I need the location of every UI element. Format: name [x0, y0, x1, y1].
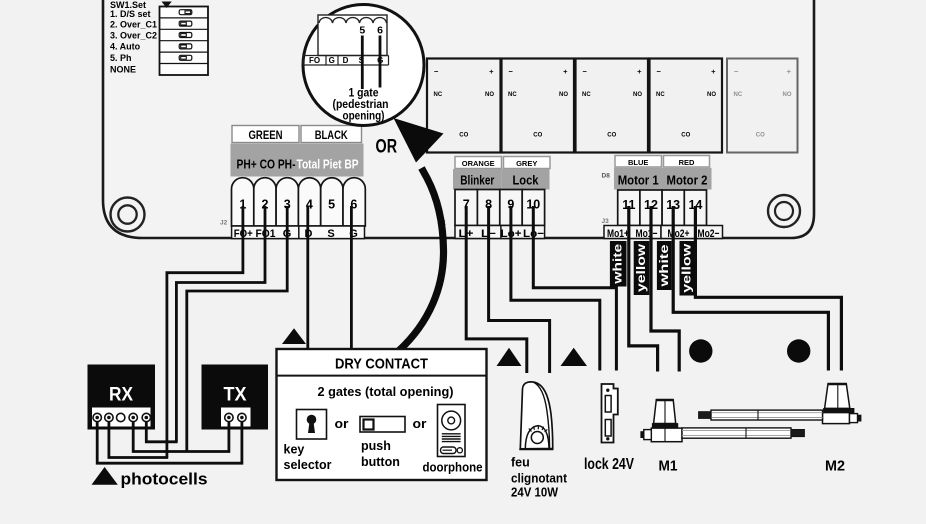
wire label white (Mo1+) [610, 241, 627, 287]
svg-text:+: + [637, 67, 642, 76]
grey label bar PH+ CO PH- Total Piet BP [231, 144, 364, 177]
wire terminal8 L- to blinker [489, 206, 550, 373]
wire terminal14 Mo2- to M2 [695, 206, 841, 371]
svg-text:24V 10W: 24V 10W [511, 486, 558, 500]
relay K2 [502, 59, 575, 153]
svg-text:NC: NC [582, 92, 591, 98]
feu clignotant label [511, 456, 568, 500]
svg-text:opening): opening) [343, 111, 385, 123]
svg-text:DRY CONTACT: DRY CONTACT [335, 356, 428, 373]
wire terminal4 D to dry contact [306, 206, 309, 348]
svg-text:−: − [657, 67, 662, 76]
magnifier circle 1 gate pedestrian [303, 5, 424, 126]
terminal block J2 cells 1-6 [232, 178, 366, 226]
wire terminal6 G to dry contact [350, 206, 353, 348]
svg-text:6: 6 [377, 25, 383, 37]
junction dot node A [689, 339, 712, 362]
key selector label [284, 443, 332, 473]
wire label yellow (Mo1-) [634, 241, 650, 295]
wire terminal11 Mo1+ to M1 [629, 206, 658, 372]
control board outline [103, 0, 814, 238]
svg-text:1 gate: 1 gate [349, 88, 379, 100]
svg-text:3. Over_C2: 3. Over_C2 [110, 31, 157, 41]
svg-text:PH+ CO PH-: PH+ CO PH- [237, 158, 296, 172]
svg-text:Lock: Lock [513, 172, 540, 187]
DIP switch row4 slider [179, 44, 192, 49]
svg-text:Mo1−: Mo1− [636, 228, 658, 240]
Motor 2 grey box [663, 168, 712, 190]
J3 label strip Mo1+ Mo1- Mo2+ Mo2- [604, 226, 661, 239]
key selector icon [297, 410, 327, 440]
svg-text:GREEN: GREEN [249, 128, 283, 142]
svg-text:J2: J2 [220, 220, 228, 227]
wire terminal3 G to bus [187, 206, 287, 452]
svg-text:white: white [613, 244, 625, 285]
RX bus wire t1 to TX t2 [97, 421, 242, 463]
wire label yellow (Mo2-) [680, 241, 695, 296]
svg-text:NO: NO [559, 92, 568, 98]
mini label band FO G D S G [303, 55, 389, 57]
svg-text:G: G [329, 56, 335, 65]
svg-text:5. Ph: 5. Ph [110, 53, 132, 63]
wire terminal2 FO1 to RX bus [176, 206, 265, 442]
J2 label strip FO+ FO1 G D S G [232, 226, 365, 239]
svg-text:−: − [434, 67, 439, 76]
svg-text:5: 5 [359, 25, 365, 37]
svg-text:NC: NC [656, 92, 665, 98]
svg-text:ORANGE: ORANGE [462, 159, 495, 168]
svg-text:CO: CO [756, 133, 765, 139]
SW1 legend text [110, 0, 157, 75]
wire terminal9 Lo+ to lock [511, 206, 600, 371]
svg-text:selector: selector [284, 458, 332, 472]
svg-text:CO: CO [533, 133, 542, 139]
marker triangle above dry contact [282, 328, 306, 344]
svg-text:2. Over_C1: 2. Over_C1 [110, 20, 157, 30]
svg-text:NO: NO [707, 92, 716, 98]
svg-text:yellow: yellow [636, 244, 648, 292]
Motor 1 grey box [614, 168, 663, 190]
relay K5 (faded) [727, 59, 798, 153]
svg-text:NC: NC [734, 92, 743, 98]
GREEN header box [232, 126, 299, 143]
svg-text:button: button [361, 455, 400, 469]
terminal cells 7-10 [455, 190, 545, 226]
photocells triangle [92, 467, 118, 485]
svg-text:NO: NO [783, 92, 792, 98]
svg-text:CO: CO [607, 133, 616, 139]
lock 24V icon [602, 384, 618, 443]
svg-text:photocells: photocells [121, 470, 208, 489]
wire terminal7 L+ to blinker [466, 206, 527, 373]
svg-text:yellow: yellow [682, 244, 694, 293]
svg-text:GREY: GREY [516, 159, 537, 168]
svg-text:NO: NO [485, 92, 494, 98]
svg-text:1. D/S set: 1. D/S set [110, 9, 151, 19]
svg-text:+: + [711, 67, 716, 76]
M2 actuator motor [699, 384, 862, 424]
svg-text:2 gates (total opening): 2 gates (total opening) [318, 385, 454, 399]
doorphone icon [438, 405, 466, 457]
svg-text:Mo1+: Mo1+ [607, 228, 629, 240]
Lock grey box [501, 169, 549, 190]
RX terminal strip [92, 408, 151, 427]
svg-text:Mo2−: Mo2− [698, 228, 720, 240]
svg-text:(pedestrian: (pedestrian [333, 99, 389, 111]
svg-text:OR: OR [376, 136, 398, 158]
terminal numbers 11-14 [622, 198, 702, 212]
wire terminal13 Mo2+ to M2 [673, 206, 828, 371]
RED label box [664, 156, 710, 168]
svg-text:M2: M2 [825, 459, 845, 475]
svg-text:NC: NC [434, 92, 443, 98]
TX terminal strip [221, 408, 251, 427]
svg-text:key: key [284, 443, 305, 457]
mini wire 6 [379, 36, 382, 88]
screw hole left [111, 198, 145, 232]
svg-text:BLUE: BLUE [628, 158, 648, 167]
RX photocell box [88, 365, 156, 430]
svg-text:5: 5 [328, 198, 335, 212]
svg-text:RED: RED [679, 158, 695, 167]
J1 label strip L+ L- Lo+ Lo- [455, 226, 545, 239]
svg-text:lock 24V: lock 24V [584, 456, 635, 473]
wire terminal12 Mo1- to M1 [651, 206, 679, 372]
Blinker grey box [453, 169, 501, 190]
svg-text:feu: feu [511, 456, 530, 470]
TX photocell box [202, 365, 269, 430]
marker triangle above blinker [497, 348, 522, 366]
relay K1 [427, 59, 501, 153]
DIP switch row2 slider [179, 21, 192, 26]
M1 actuator motor [641, 400, 805, 442]
svg-text:doorphone: doorphone [423, 461, 483, 475]
svg-text:−: − [509, 67, 514, 76]
svg-text:Motor 2: Motor 2 [667, 173, 708, 188]
svg-text:J3: J3 [602, 218, 610, 225]
BLUE label box [615, 156, 662, 168]
DIP switch row3 slider [179, 33, 192, 38]
svg-text:NONE: NONE [110, 65, 136, 75]
svg-text:or: or [413, 416, 427, 431]
push button label [361, 439, 400, 469]
caption 1 gate (pedestrian opening) [333, 88, 389, 123]
svg-text:4. Auto: 4. Auto [110, 42, 141, 52]
mini wire 5 [361, 36, 364, 90]
svg-text:NC: NC [508, 92, 517, 98]
RX bus wire t4 to TX t1 [133, 421, 229, 452]
svg-text:clignotant: clignotant [511, 472, 568, 486]
DRY CONTACT box [277, 349, 487, 480]
svg-text:push: push [361, 439, 391, 453]
svg-text:+: + [787, 67, 792, 76]
scallop wire row [319, 17, 387, 23]
svg-text:or: or [335, 416, 349, 431]
svg-text:Mo2+: Mo2+ [668, 228, 690, 240]
svg-text:Blinker: Blinker [460, 172, 494, 187]
svg-text:CO: CO [459, 133, 468, 139]
svg-text:TX: TX [224, 385, 247, 406]
DIP switch row5 slider [179, 55, 192, 60]
relay K3 [576, 59, 649, 153]
svg-text:+: + [489, 67, 494, 76]
RX bus wire t5 to w2 [146, 421, 177, 442]
terminal numbers 1-6 [239, 198, 357, 212]
ORANGE label box [455, 157, 502, 169]
terminal numbers 7-10 [463, 198, 541, 212]
svg-text:−: − [583, 67, 588, 76]
svg-text:+: + [563, 67, 568, 76]
mini terminal block in circle [318, 15, 387, 56]
big arrow head [394, 118, 444, 163]
screw hole right [768, 195, 800, 227]
DIP switch row1 slider [179, 10, 192, 15]
svg-text:D: D [343, 56, 349, 65]
push button icon [360, 417, 405, 433]
svg-text:white: white [659, 245, 671, 288]
svg-text:−: − [734, 67, 739, 76]
wire terminal1 FO+ to RX bus [167, 206, 243, 458]
svg-text:M1: M1 [659, 459, 678, 475]
svg-text:BLACK: BLACK [315, 128, 348, 142]
svg-text:FO: FO [309, 56, 320, 65]
pointer triangle on SW1 table [162, 2, 172, 9]
feu clignotant lamp icon [519, 382, 553, 449]
relay K4 [650, 59, 723, 153]
wire label white (Mo2+) [657, 241, 672, 290]
GREY label box [504, 157, 551, 169]
big curved arrow tail [399, 168, 444, 351]
svg-text:NO: NO [633, 92, 642, 98]
junction dot node B [787, 339, 810, 362]
RX bus wire t2 to w1 [109, 421, 168, 458]
svg-text:D8: D8 [602, 173, 611, 180]
marker triangle above lock [561, 348, 588, 366]
BLACK header box [301, 126, 362, 143]
DIP switch table SW1 [160, 7, 209, 76]
svg-text:CO: CO [681, 133, 690, 139]
terminal cells 11-14 [618, 190, 707, 226]
svg-text:Motor 1: Motor 1 [618, 173, 659, 188]
svg-text:S: S [327, 228, 334, 240]
svg-text:RX: RX [109, 385, 133, 406]
svg-text:Total Piet BP: Total Piet BP [297, 158, 359, 172]
wire terminal10 Lo- to lock [533, 206, 616, 371]
